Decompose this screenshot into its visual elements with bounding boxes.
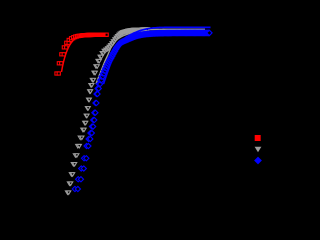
- blue data markers: paired black-faced diamonds: [72, 30, 212, 191]
- gray fit line: [96, 29, 205, 84]
- legend blue diamond: [254, 157, 262, 165]
- red data markers: paired black-faced squares: [55, 33, 108, 75]
- legend gray triangle: [255, 147, 262, 152]
- red fit line: [62, 34, 109, 73]
- legend red square: [255, 135, 261, 141]
- gray data markers: paired black-faced down-triangles: [65, 28, 149, 194]
- blue fit line: [104, 27, 211, 84]
